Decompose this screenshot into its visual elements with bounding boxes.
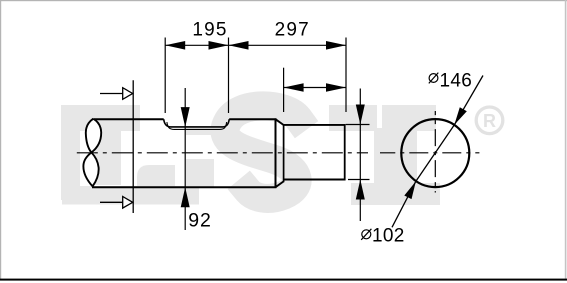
watermark letter glyph 3 (slab I/T) [329, 105, 440, 205]
groove outer profile [164, 119, 230, 127]
reference extension line (left, with open arrows) [132, 80, 134, 213]
arrow 195 left [165, 41, 185, 50]
label dia 102 [361, 225, 404, 246]
dim 102 bottom tick [348, 179, 370, 181]
page border top [0, 0, 567, 1]
dim 195/297 shared extension line [228, 38, 230, 114]
page border right [565, 0, 567, 280]
watermark letter S [225, 106, 298, 199]
open arrow lower head [123, 197, 133, 209]
break curve 2 [83, 119, 101, 187]
circle horizontal centerline [380, 152, 479, 154]
watermark letter glyph 1 (L-like) [61, 105, 214, 205]
dim 92 down arrow [181, 107, 190, 127]
arrow 297 left [229, 41, 249, 50]
svg-text:92: 92 [188, 210, 211, 232]
dim 92 vertical line [184, 88, 186, 230]
svg-text:R: R [483, 111, 496, 131]
watermark registered trademark symbol [476, 107, 503, 134]
shaft bottom line [92, 186, 276, 188]
circle vertical centerline [434, 111, 436, 193]
end view circle [401, 119, 469, 187]
big end face [275, 118, 277, 188]
diameter arrow lower (tip on rim) [404, 181, 416, 199]
dim line 195+297 [165, 44, 346, 46]
leader to label 146 [454, 76, 483, 125]
shaft top line (left of groove) [95, 118, 164, 120]
unlabeled dim arrow right [326, 83, 346, 92]
open arrow lower leader [100, 201, 123, 203]
label dia 146 [429, 71, 472, 92]
dim 195 extension line left [164, 38, 166, 114]
svg-text:297: 297 [275, 20, 310, 41]
diameter leader line through circle [416, 125, 454, 181]
svg-text:195: 195 [192, 20, 227, 41]
small cylinder top line [284, 124, 346, 126]
svg-text:146: 146 [440, 71, 473, 92]
page border left [0, 0, 1, 280]
dim 102 top tick [346, 124, 370, 126]
open arrow upper leader [100, 93, 123, 95]
taper end face [283, 124, 285, 182]
unlabeled dim arrow left [284, 83, 304, 92]
bottom rule [0, 279, 567, 281]
break curve 1 [86, 119, 99, 187]
break-line lens fill (white) [83, 119, 101, 187]
centerline of shaft [77, 152, 368, 154]
dim 102 up arrow [356, 180, 365, 200]
unlabeled dim extension line left [283, 68, 285, 112]
diameter arrow upper (tip on rim) [454, 107, 467, 125]
dim 297 extension line right [345, 38, 347, 113]
arrow 195 right [209, 41, 229, 50]
dim 92 up arrow [181, 187, 190, 207]
dim 102 vertical line [359, 89, 361, 222]
svg-text:102: 102 [372, 225, 405, 246]
dim 102 down arrow [356, 105, 365, 125]
groove inner relief line [167, 122, 227, 129]
open arrow upper head [123, 88, 133, 100]
small cylinder bottom line [284, 179, 346, 181]
leader to label 102 [392, 181, 416, 227]
shaft top line (right of groove) [229, 118, 276, 120]
unlabeled dim line [284, 87, 346, 89]
taper bottom line [276, 181, 284, 187]
arrow 297 right [326, 41, 346, 50]
small cylinder end face [344, 124, 346, 180]
taper top line [276, 119, 284, 125]
